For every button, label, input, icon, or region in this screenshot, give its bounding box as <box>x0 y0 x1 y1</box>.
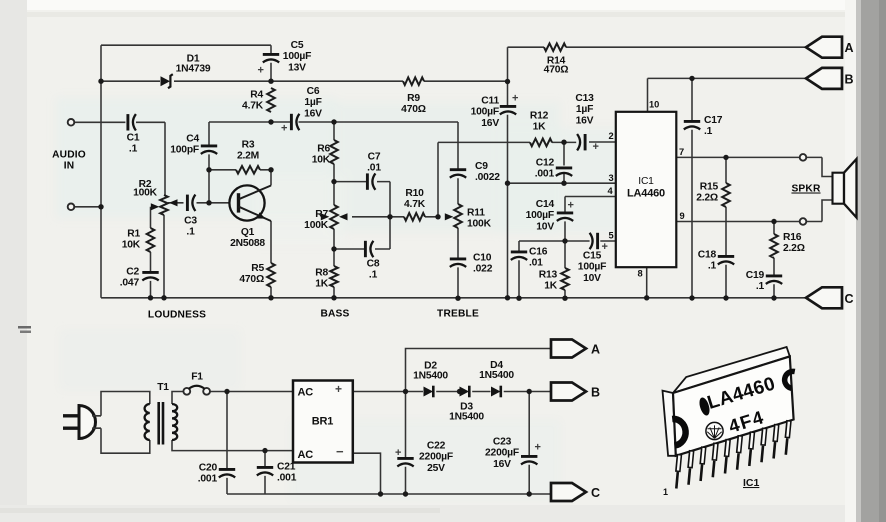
svg-text:R3: R3 <box>242 140 255 151</box>
svg-text:4: 4 <box>608 186 614 196</box>
capacitor C1 <box>127 114 140 155</box>
wire C20 branch <box>226 392 228 495</box>
svg-text:25V: 25V <box>427 463 445 474</box>
svg-text:.022: .022 <box>473 264 493 275</box>
svg-text:2.2M: 2.2M <box>237 151 259 162</box>
diode D1 <box>161 54 211 89</box>
svg-text:5: 5 <box>609 231 614 241</box>
wire C12 vertical <box>563 142 565 183</box>
svg-text:SPKR: SPKR <box>791 184 821 195</box>
wire A rail riser <box>507 47 509 81</box>
svg-text:+: + <box>335 382 342 396</box>
svg-text:LOUDNESS: LOUDNESS <box>148 310 206 321</box>
package pin 10 <box>786 420 789 455</box>
svg-text:B: B <box>845 72 854 86</box>
wire collector riser <box>270 170 272 186</box>
potentiometer R7 <box>304 205 347 231</box>
junction treble ground <box>455 296 460 301</box>
wire ground rail <box>101 297 806 299</box>
svg-text:2200µF: 2200µF <box>485 448 519 459</box>
wire emitter to R5 <box>270 221 272 298</box>
terminal input gnd <box>68 204 75 211</box>
svg-text:1µF: 1µF <box>304 97 321 108</box>
package pin 2 <box>689 450 692 485</box>
junction C14/C15/R13 node <box>562 238 567 243</box>
svg-text:C: C <box>845 292 854 306</box>
svg-text:Q1: Q1 <box>241 227 255 238</box>
wire secondary top <box>172 392 293 405</box>
svg-text:R9: R9 <box>407 93 420 104</box>
svg-text:R16: R16 <box>783 232 802 243</box>
junction pin8 ground <box>644 295 649 300</box>
svg-text:R4: R4 <box>250 90 263 101</box>
svg-text:IN: IN <box>64 161 75 172</box>
svg-text:.1: .1 <box>708 261 717 272</box>
junction wiper bus <box>387 214 392 219</box>
svg-text:.1: .1 <box>704 126 713 137</box>
svg-text:C4: C4 <box>186 134 199 145</box>
svg-text:F1: F1 <box>191 372 203 383</box>
potentiometer R2 <box>133 179 177 215</box>
svg-text:R12: R12 <box>530 111 549 122</box>
junction R9/A/C11 node <box>505 79 510 84</box>
wire C16 line <box>519 241 565 298</box>
wire C21 branch <box>264 451 266 494</box>
wire bass chain bottom <box>333 229 335 298</box>
svg-text:10V: 10V <box>536 221 554 232</box>
svg-text:AC: AC <box>298 449 314 461</box>
svg-text:.01: .01 <box>367 163 381 174</box>
AC plug <box>63 406 96 439</box>
wire pin7 line <box>676 156 800 158</box>
wire R2 chain bottom <box>163 215 165 298</box>
junction input2/ground <box>98 204 103 209</box>
resistor R10 <box>404 188 426 221</box>
wire C4 vertical <box>208 122 210 203</box>
wire C3 to base <box>168 202 229 204</box>
resistor R14 <box>544 43 569 75</box>
svg-text:C16: C16 <box>529 247 548 258</box>
svg-text:BASS: BASS <box>320 309 349 320</box>
junction C17 ground <box>689 295 694 300</box>
svg-text:470Ω: 470Ω <box>401 104 426 115</box>
svg-text:C2: C2 <box>126 267 139 278</box>
wire R16 C19 branch <box>773 222 775 299</box>
speaker SPKR <box>791 159 856 218</box>
svg-text:−: − <box>336 444 344 459</box>
capacitor C8 <box>365 241 379 281</box>
svg-text:R13: R13 <box>539 270 558 281</box>
package pin 1 <box>676 454 679 489</box>
svg-text:1N5400: 1N5400 <box>479 370 514 381</box>
connector C out <box>806 287 854 308</box>
package pin 7 <box>749 432 752 467</box>
svg-text:.0022: .0022 <box>475 172 500 183</box>
wire plug stub top <box>94 415 102 417</box>
svg-text:C12: C12 <box>536 158 555 169</box>
junction C22 ground <box>403 491 408 496</box>
junction R6 top <box>331 119 336 124</box>
wire R3 line <box>209 169 271 171</box>
junction C11 ground <box>505 295 510 300</box>
junction R2 ground <box>161 295 166 300</box>
svg-text:T1: T1 <box>157 382 169 393</box>
wire plug to loop <box>92 416 101 428</box>
junction D2/D3 node <box>457 389 462 394</box>
svg-text:1µF: 1µF <box>576 104 593 115</box>
svg-text:+: + <box>602 241 608 253</box>
svg-text:C14: C14 <box>536 199 555 210</box>
capacitor C7 <box>367 152 381 190</box>
svg-text:TREBLE: TREBLE <box>437 309 479 320</box>
svg-text:1N5400: 1N5400 <box>449 412 484 423</box>
connector B psu <box>551 383 600 401</box>
svg-text:4.7K: 4.7K <box>242 101 264 112</box>
wire R10 to R11 wire <box>390 216 438 218</box>
junction D4/C23/B node <box>527 389 532 394</box>
svg-text:10: 10 <box>649 100 659 110</box>
connector B out <box>806 68 854 89</box>
wire R7 wiper tail <box>352 216 390 218</box>
svg-text:+: + <box>535 442 541 454</box>
svg-text:R10: R10 <box>405 188 424 199</box>
svg-text:.001: .001 <box>277 473 297 484</box>
wire D1 rail <box>101 80 160 82</box>
svg-text:A: A <box>591 343 600 357</box>
svg-text:+: + <box>395 447 401 459</box>
resistor R15 <box>696 182 730 208</box>
svg-text:C8: C8 <box>367 259 380 270</box>
resistor R1 <box>122 228 155 252</box>
capacitor C12 <box>535 158 572 180</box>
package pin 3 <box>701 447 704 482</box>
svg-text:7: 7 <box>679 147 684 157</box>
svg-text:16V: 16V <box>481 118 499 129</box>
package pin 6 <box>737 435 740 470</box>
capacitor C14 <box>526 199 574 232</box>
junction R3/collector <box>268 167 273 172</box>
wire C7 line <box>334 182 390 249</box>
svg-text:470Ω: 470Ω <box>544 64 569 75</box>
svg-text:C1: C1 <box>127 133 140 144</box>
svg-text:100pF: 100pF <box>170 145 199 156</box>
svg-text:C3: C3 <box>184 216 197 227</box>
svg-text:16V: 16V <box>493 459 511 470</box>
capacitor C11 <box>471 93 519 129</box>
connector A out <box>806 37 854 58</box>
capacitor C4 <box>170 134 217 156</box>
resistor R5 <box>239 263 274 287</box>
svg-text:2.2Ω: 2.2Ω <box>696 193 718 204</box>
capacitor C10 <box>450 253 493 275</box>
wire B rail <box>648 77 807 79</box>
svg-text:.001: .001 <box>198 474 218 485</box>
junction R15 top <box>723 155 728 160</box>
connector C psu <box>551 483 600 501</box>
svg-text:1N4739: 1N4739 <box>176 64 211 75</box>
IC1 package illustration <box>663 347 795 456</box>
wire R9 rail <box>271 80 508 82</box>
junction D1 left <box>98 79 103 84</box>
svg-text:1K: 1K <box>533 122 547 133</box>
junction base node <box>206 200 211 205</box>
capacitor C22 <box>395 441 453 474</box>
svg-text:C18: C18 <box>698 250 717 261</box>
wire primary loop <box>101 392 150 454</box>
svg-text:LA4460: LA4460 <box>627 188 665 200</box>
svg-text:100µF: 100µF <box>578 262 606 273</box>
wire C5 vertical <box>270 45 272 81</box>
transistor Q1 <box>229 185 271 248</box>
svg-text:AC: AC <box>298 387 314 399</box>
svg-text:.1: .1 <box>756 281 765 292</box>
svg-text:8: 8 <box>638 269 643 279</box>
svg-text:100µF: 100µF <box>471 107 499 118</box>
junction C11/pin3 <box>505 181 510 186</box>
svg-text:100K: 100K <box>467 218 492 229</box>
svg-text:AUDIO: AUDIO <box>52 150 86 161</box>
wire pin4 line <box>565 197 616 242</box>
wire left ground vertical <box>100 45 102 298</box>
svg-text:9: 9 <box>680 211 685 221</box>
wire spkr bottom wire <box>806 200 832 222</box>
junction R6/C7 node <box>331 179 336 184</box>
svg-text:IC1: IC1 <box>743 477 760 489</box>
svg-text:R11: R11 <box>467 208 485 219</box>
resistor R3 <box>236 140 260 174</box>
svg-text:.1: .1 <box>186 227 195 238</box>
svg-text:R1: R1 <box>127 229 140 240</box>
package pin 8 <box>762 428 765 463</box>
svg-text:10K: 10K <box>122 240 141 251</box>
junction bass ground <box>331 295 336 300</box>
svg-text:2.2Ω: 2.2Ω <box>783 243 805 254</box>
junction C16 ground <box>516 296 521 301</box>
fuse F1 <box>183 372 210 395</box>
svg-text:BR1: BR1 <box>312 416 333 428</box>
svg-text:1N5400: 1N5400 <box>413 371 448 382</box>
wire bass chain top <box>333 122 335 205</box>
resistor R6 <box>312 140 338 166</box>
capacitor C20 <box>198 463 235 485</box>
wire C8 line <box>334 248 390 250</box>
wire C11 branch <box>507 82 509 298</box>
svg-text:A: A <box>845 41 854 55</box>
package pin 9 <box>774 424 777 459</box>
package pin 4 <box>713 443 716 478</box>
svg-text:13V: 13V <box>288 62 306 73</box>
capacitor C21 <box>257 462 297 484</box>
transformer T1 <box>145 382 178 445</box>
junction R16 top <box>771 219 776 224</box>
wire secondary bottom <box>172 440 293 451</box>
svg-text:B: B <box>591 386 600 400</box>
svg-text:C17: C17 <box>704 115 723 126</box>
wire bridge plus wire <box>353 391 551 393</box>
wire C17 vertical <box>691 78 693 298</box>
wire spkr top wire <box>806 157 832 176</box>
capacitor C9 <box>450 161 500 183</box>
wire pin10 vertical <box>647 78 649 111</box>
wire input line to C1 <box>74 122 165 195</box>
svg-text:1K: 1K <box>315 279 329 290</box>
junction R10/R11 node <box>435 214 440 219</box>
capacitor C17 <box>684 115 723 137</box>
capacitor C3 <box>184 195 197 238</box>
capacitor C18 <box>698 250 734 272</box>
capacitor C6 <box>281 86 322 135</box>
wire C6 rail <box>209 121 458 123</box>
svg-text:C23: C23 <box>493 437 512 448</box>
svg-text:16V: 16V <box>304 108 322 119</box>
svg-text:+: + <box>512 93 518 105</box>
resistor R4 <box>242 88 275 112</box>
resistor R13 <box>539 268 569 292</box>
resistor R16 <box>770 232 805 258</box>
svg-text:C13: C13 <box>575 93 594 104</box>
potentiometer R11 <box>445 204 492 229</box>
resistor R9 <box>401 77 426 115</box>
wire plug stub bottom <box>94 427 102 429</box>
junction fuse/C20 node <box>224 389 229 394</box>
wire A riser <box>406 349 552 392</box>
svg-text:C11: C11 <box>481 96 499 107</box>
svg-text:.1: .1 <box>129 144 138 155</box>
svg-text:.001: .001 <box>535 169 555 180</box>
wire A rail <box>508 46 807 48</box>
wire bridge minus wire <box>353 453 381 494</box>
svg-text:100µF: 100µF <box>283 51 311 62</box>
resistor R12 <box>530 111 552 147</box>
junction R4/C6 rail <box>268 119 273 124</box>
svg-text:470Ω: 470Ω <box>239 274 264 285</box>
junction R7/C8 node <box>331 246 336 251</box>
svg-text:IC1: IC1 <box>638 176 654 187</box>
svg-text:100µF: 100µF <box>526 210 554 221</box>
capacitor C5 <box>258 40 312 77</box>
svg-text:10K: 10K <box>312 155 331 166</box>
junction node C5/D1/R4 <box>268 79 273 84</box>
connector A psu <box>551 340 600 358</box>
capacitor C2 <box>120 267 159 289</box>
svg-text:3: 3 <box>609 173 614 183</box>
svg-text:R6: R6 <box>317 144 330 155</box>
capacitor C13 <box>575 93 599 153</box>
svg-text:C22: C22 <box>427 441 446 452</box>
svg-text:C10: C10 <box>473 253 492 264</box>
label AUDIO IN <box>52 150 86 172</box>
svg-text:C19: C19 <box>746 270 765 281</box>
wire top rail C5 loop <box>101 44 271 46</box>
wire D1 rail right part <box>174 80 271 82</box>
svg-text:R8: R8 <box>315 268 328 279</box>
wire pin3 line <box>508 182 616 184</box>
wire pin9 line <box>676 221 800 223</box>
svg-text:100K: 100K <box>304 220 329 231</box>
junction C21 node <box>262 448 267 453</box>
svg-text:+: + <box>258 65 264 77</box>
svg-text:C5: C5 <box>291 40 304 51</box>
terminal spkr terminal bottom <box>800 218 807 225</box>
junction C17/B rail <box>689 76 694 81</box>
junction R1 ground <box>148 295 153 300</box>
svg-text:.047: .047 <box>120 278 140 289</box>
svg-text:4.7K: 4.7K <box>404 199 426 210</box>
svg-text:R5: R5 <box>251 263 264 274</box>
wire R13 vertical <box>564 241 566 298</box>
svg-text:.01: .01 <box>529 258 543 269</box>
wire input 2 line <box>74 206 101 208</box>
wire pin5 line <box>565 240 616 242</box>
svg-text:+: + <box>568 200 574 212</box>
wire treble chain <box>457 122 459 298</box>
terminal spkr terminal top <box>800 154 807 161</box>
svg-text:C9: C9 <box>475 161 488 172</box>
svg-text:1K: 1K <box>544 281 558 292</box>
resistor R8 <box>315 266 338 290</box>
junction C12/pin3 <box>561 181 566 186</box>
wire psu bottom rail <box>227 493 551 495</box>
svg-text:R15: R15 <box>700 182 719 193</box>
capacitor C15 <box>578 233 608 284</box>
wire R15 C18 branch <box>725 157 727 298</box>
op-amp IC U1 LA4460 box <box>616 112 677 267</box>
diode D2 <box>413 361 448 398</box>
svg-text:+: + <box>593 141 599 153</box>
bridge rectifier BR1 <box>293 381 353 463</box>
svg-text:1: 1 <box>663 487 668 497</box>
svg-text:10V: 10V <box>583 273 601 284</box>
junction C19 ground <box>771 295 776 300</box>
capacitor C16 <box>511 247 548 269</box>
svg-text:100K: 100K <box>133 188 158 199</box>
junction minus rail corner <box>378 491 383 496</box>
svg-text:2: 2 <box>609 131 614 141</box>
junction R3/C4 node <box>206 167 211 172</box>
wire R2 wiper tap left <box>150 207 152 298</box>
junction R5 ground <box>268 295 273 300</box>
wire C23 branch <box>528 392 530 495</box>
package pin 5 <box>725 439 728 474</box>
svg-text:C20: C20 <box>199 463 218 474</box>
svg-text:C15: C15 <box>583 251 602 262</box>
junction C12/pin2 <box>561 140 566 145</box>
svg-text:C6: C6 <box>307 86 320 97</box>
svg-text:C: C <box>591 486 600 500</box>
wire treble riser <box>437 142 439 216</box>
capacitor C23 <box>485 437 541 470</box>
svg-text:R7: R7 <box>315 209 328 220</box>
svg-text:2N5088: 2N5088 <box>230 238 265 249</box>
svg-text:2200µF: 2200µF <box>419 452 453 463</box>
svg-text:C7: C7 <box>368 152 381 163</box>
junction R13 ground <box>562 296 567 301</box>
junction plus/C22/A node <box>403 389 408 394</box>
svg-text:+: + <box>281 123 287 135</box>
wire C22 branch <box>405 392 407 495</box>
terminal input hot <box>68 119 75 126</box>
junction C18 ground <box>723 295 728 300</box>
svg-text:.1: .1 <box>369 270 378 281</box>
wire pin2 line <box>438 141 616 143</box>
diode D3 <box>449 386 484 423</box>
wire pin8 vertical <box>646 267 648 298</box>
capacitor C19 <box>746 270 782 292</box>
diode D4 <box>479 360 514 397</box>
svg-text:16V: 16V <box>576 115 594 126</box>
junction C23 ground <box>527 491 532 496</box>
